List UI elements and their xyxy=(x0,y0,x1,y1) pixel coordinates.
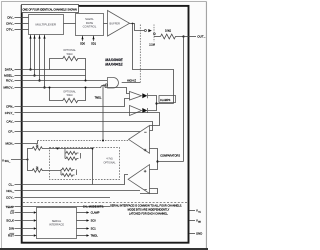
svg-text:RST: RST xyxy=(8,234,14,238)
svg-text:CHV_: CHV_ xyxy=(6,22,14,26)
svg-text:CPN_: CPN_ xyxy=(6,105,14,109)
svg-text:OUT_: OUT_ xyxy=(197,35,205,39)
svg-text:1k: 1k xyxy=(36,166,39,169)
svg-text:OPTIONAL: OPTIONAL xyxy=(103,161,116,164)
svg-text:MSEL_: MSEL_ xyxy=(4,74,14,78)
svg-text:CCV_: CCV_ xyxy=(6,196,14,200)
svg-text:DATA_: DATA_ xyxy=(5,68,15,72)
svg-text:DIN: DIN xyxy=(9,227,14,231)
svg-text:CLAMP: CLAMP xyxy=(91,211,100,215)
svg-text:CS: CS xyxy=(10,211,14,215)
svg-text:1k: 1k xyxy=(36,144,39,147)
svg-text:SERIAL INTERFACE IS COMMON TO: SERIAL INTERFACE IS COMMON TO ALL FOUR C… xyxy=(110,203,182,207)
svg-text:50kΩ: 50kΩ xyxy=(67,53,73,56)
svg-text:OPTIONAL: OPTIONAL xyxy=(63,90,76,93)
svg-text:DIV_: DIV_ xyxy=(7,16,14,20)
svg-text:2.1M: 2.1M xyxy=(149,43,155,46)
svg-text:SERIAL: SERIAL xyxy=(52,219,62,223)
svg-text:LATCHED FOR EACH CHANNEL.: LATCHED FOR EACH CHANNEL. xyxy=(129,211,168,215)
svg-text:SC1: SC1 xyxy=(91,227,97,231)
svg-text:CP_: CP_ xyxy=(8,130,14,134)
svg-text:SC0: SC0 xyxy=(91,219,97,223)
svg-text:10kΩ: 10kΩ xyxy=(165,29,171,33)
svg-text:OPTIONAL: OPTIONAL xyxy=(63,49,76,52)
svg-text:CC: CC xyxy=(198,212,201,214)
svg-text:MCH_: MCH_ xyxy=(5,142,14,146)
svg-text:RCV_: RCV_ xyxy=(6,79,14,83)
svg-text:SD1: SD1 xyxy=(91,42,97,46)
svg-text:CAV_: CAV_ xyxy=(6,120,14,124)
svg-text:NCL_: NCL_ xyxy=(6,189,14,193)
svg-text:DTV_: DTV_ xyxy=(6,28,14,32)
svg-text:SD0: SD0 xyxy=(80,42,86,46)
svg-text:CLAMPS: CLAMPS xyxy=(160,99,171,102)
svg-text:TMDL: TMDL xyxy=(91,234,99,238)
svg-text:EE: EE xyxy=(198,222,201,224)
svg-text:TEMP: TEMP xyxy=(6,205,14,209)
svg-text:MRCV_: MRCV_ xyxy=(3,86,14,90)
svg-text:50kΩ: 50kΩ xyxy=(67,94,73,97)
svg-text:INTERFACE: INTERFACE xyxy=(49,222,64,226)
svg-text:GND: GND xyxy=(196,232,202,236)
svg-text:ONE OF FOUR IDENTICAL CHANNELS: ONE OF FOUR IDENTICAL CHANNELS SHOWN xyxy=(22,9,76,12)
svg-text:BUFFER: BUFFER xyxy=(110,22,121,26)
svg-text:COMPARATORS: COMPARATORS xyxy=(160,153,180,157)
svg-text:CL_: CL_ xyxy=(8,183,14,187)
svg-text:CPLY_: CPLY_ xyxy=(5,111,15,115)
svg-text:4-7kΩ: 4-7kΩ xyxy=(106,158,113,161)
svg-text:TMDL: TMDL xyxy=(95,97,102,100)
svg-text:CH_ MODE BITS:: CH_ MODE BITS: xyxy=(83,205,104,209)
svg-text:HIGH-Z: HIGH-Z xyxy=(127,79,136,83)
svg-text:MODE BITS ARE INDEPENDENTLY: MODE BITS ARE INDEPENDENTLY xyxy=(128,207,170,211)
svg-text:MAX4941E: MAX4941E xyxy=(105,62,123,66)
svg-text:CONTROL: CONTROL xyxy=(83,24,97,28)
svg-text:SCLK: SCLK xyxy=(6,219,14,223)
svg-text:MULTIPLEXER: MULTIPLEXER xyxy=(35,23,56,27)
svg-text:SCL_: SCL_ xyxy=(5,161,11,163)
